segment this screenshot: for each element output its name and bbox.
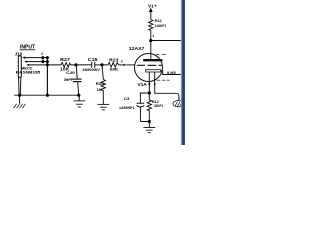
resistor R23 [102, 63, 119, 68]
wire cathode to output ellipse [155, 72, 177, 93]
wire jack pin2 [27, 61, 47, 63]
svg-text:R12: R12 [155, 19, 162, 23]
chassis ground symbol [19, 95, 21, 104]
svg-text:R23: R23 [109, 58, 119, 63]
junction dot cathode ground node [148, 120, 151, 123]
wire jack pin3 to R27 [29, 64, 61, 66]
wire cathode right bend to net 9.N5 [161, 71, 182, 75]
svg-text:82KP1: 82KP1 [154, 104, 163, 108]
jack contact arrow pin 3 [26, 64, 29, 66]
resistor R27 [61, 63, 71, 68]
jack part number text [16, 66, 41, 74]
resistor R12 plate [149, 20, 153, 32]
svg-text:1M: 1M [97, 87, 103, 92]
junction dot B+ rail [149, 39, 152, 42]
svg-text:1A50NP1: 1A50NP1 [119, 106, 134, 110]
page edge blue strip [181, 0, 185, 145]
svg-text:C20: C20 [66, 70, 76, 75]
jack contact arrow pin 1 [22, 57, 25, 59]
grid wire arrow [124, 64, 127, 66]
earth ground under R25 [102, 92, 104, 104]
svg-text:218KP1: 218KP1 [155, 24, 167, 28]
junction dot C20 ground [77, 94, 80, 97]
connector J10 jack body [18, 56, 21, 78]
supply arrow V1+ [148, 3, 157, 8]
dashes below cathode [157, 79, 170, 81]
svg-text:1: 1 [152, 34, 154, 38]
capacitor C15 [91, 62, 93, 68]
wire R27 to C15 [71, 64, 92, 66]
pin number 2 [41, 52, 43, 56]
junction dot jack ground [18, 94, 21, 97]
wire plate lead up [150, 41, 152, 60]
wire tie B down to ground bus [46, 58, 48, 96]
net label 9.N5 [167, 71, 176, 75]
wire B+ rail [151, 40, 181, 42]
dashes right of plate lead [156, 54, 166, 56]
resistor R12 cathode [148, 93, 150, 100]
svg-text:1N500WV: 1N500WV [82, 68, 101, 72]
pin number 1 plate [152, 34, 154, 38]
svg-text:68K: 68K [110, 66, 119, 71]
cathode lead arrow [148, 83, 150, 86]
junction dots tie A [41, 56, 44, 59]
connector J10 label [15, 52, 23, 57]
node dot C20 tap [74, 63, 77, 66]
svg-text:R25: R25 [96, 81, 105, 86]
node dot C15 / R25 / R23 [100, 63, 103, 66]
wire R23 to grid [119, 64, 124, 66]
junction dots tie B [46, 56, 49, 59]
output wire arrow [154, 84, 156, 87]
earth ground under R12 [148, 122, 150, 128]
wire jack pin1 [25, 57, 47, 59]
junction dot cathode node [148, 91, 151, 94]
svg-text:V1A: V1A [137, 82, 146, 87]
svg-text:C15: C15 [88, 57, 98, 62]
svg-text:2: 2 [121, 60, 123, 64]
resistor R25 [102, 65, 103, 80]
earth ground under C20 [78, 95, 80, 101]
pin number 2 grid [121, 60, 123, 64]
svg-text:2: 2 [41, 52, 43, 56]
svg-text:R27: R27 [60, 57, 71, 62]
tube grid dashes [137, 64, 163, 66]
capacitor C3 [140, 93, 149, 103]
wire ground bus [14, 94, 79, 96]
svg-text:9.N5: 9.N5 [167, 71, 176, 75]
svg-text:RASNB185: RASNB185 [16, 70, 41, 74]
tube cathode box [146, 70, 161, 72]
svg-text:C3: C3 [124, 96, 130, 101]
svg-text:V1+: V1+ [148, 3, 157, 8]
tube V1A 12AX7 envelope [135, 54, 163, 82]
wire tie A [42, 58, 44, 62]
node INPUT label [20, 44, 36, 50]
tube plate bar [143, 59, 162, 61]
wire cathode down lead [148, 72, 150, 93]
svg-text:12AX7: 12AX7 [129, 46, 145, 51]
capacitor C20 [75, 65, 78, 79]
jack contact arrow pin 2 [24, 61, 27, 63]
off-page connector ellipse [173, 101, 184, 107]
svg-text:39PF: 39PF [64, 78, 74, 82]
wire jack sleeve legs [18, 77, 20, 94]
